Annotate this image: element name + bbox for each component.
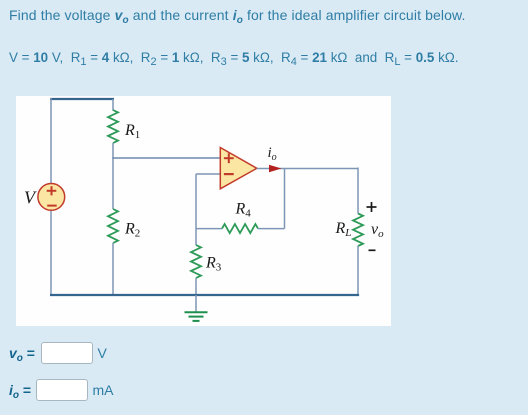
wire R3 top stub bbox=[195, 229, 197, 245]
answer row io bbox=[9, 382, 31, 401]
svg-text:R1: R1 bbox=[124, 122, 140, 141]
wire noninverting input bbox=[112, 157, 221, 159]
wire feedback left bbox=[196, 228, 222, 230]
svg-text:vo: vo bbox=[371, 221, 384, 240]
wire ground stem bbox=[195, 295, 197, 312]
svg-text:V: V bbox=[24, 188, 37, 208]
wire right vertical lower bbox=[357, 246, 359, 295]
svg-text:R4: R4 bbox=[235, 201, 252, 220]
resistor R2 bbox=[108, 209, 118, 243]
resistor R1 bbox=[108, 110, 118, 143]
wire op-amp output bbox=[257, 168, 358, 170]
resistor RL bbox=[353, 214, 363, 247]
resistor R3 bbox=[191, 245, 201, 278]
ground bbox=[185, 312, 208, 321]
given values line bbox=[9, 50, 459, 68]
wire top horizontal bbox=[50, 98, 114, 100]
wire left vertical upper bbox=[50, 98, 52, 184]
op-amp U1 bbox=[220, 148, 256, 189]
current arrow io bbox=[269, 165, 282, 173]
wire output junction vertical bbox=[284, 169, 286, 229]
wire bottom horizontal bbox=[50, 294, 359, 296]
wire between R1 and R2 bbox=[112, 143, 114, 209]
wire R3 bottom stub bbox=[195, 278, 197, 295]
voltage source V bbox=[38, 184, 65, 211]
svg-text:R2: R2 bbox=[124, 221, 140, 240]
resistor R4 bbox=[222, 224, 258, 233]
wire inverting input bbox=[196, 173, 221, 175]
svg-text:R3: R3 bbox=[205, 255, 222, 274]
svg-text:RL: RL bbox=[335, 220, 352, 239]
answer row vo bbox=[9, 345, 35, 364]
wire below R2 bbox=[112, 243, 114, 295]
wire left vertical lower bbox=[50, 210, 52, 295]
wire inverting branch vertical bbox=[195, 174, 197, 229]
heading line 1 bbox=[9, 7, 466, 26]
wire right vertical upper bbox=[357, 168, 359, 214]
wire R1 branch top stub bbox=[112, 99, 114, 111]
label minus vo bbox=[369, 249, 376, 251]
label plus vo bbox=[367, 202, 377, 212]
wire feedback right bbox=[258, 228, 285, 230]
white circuit panel bbox=[16, 96, 391, 326]
svg-text:io: io bbox=[268, 145, 277, 163]
